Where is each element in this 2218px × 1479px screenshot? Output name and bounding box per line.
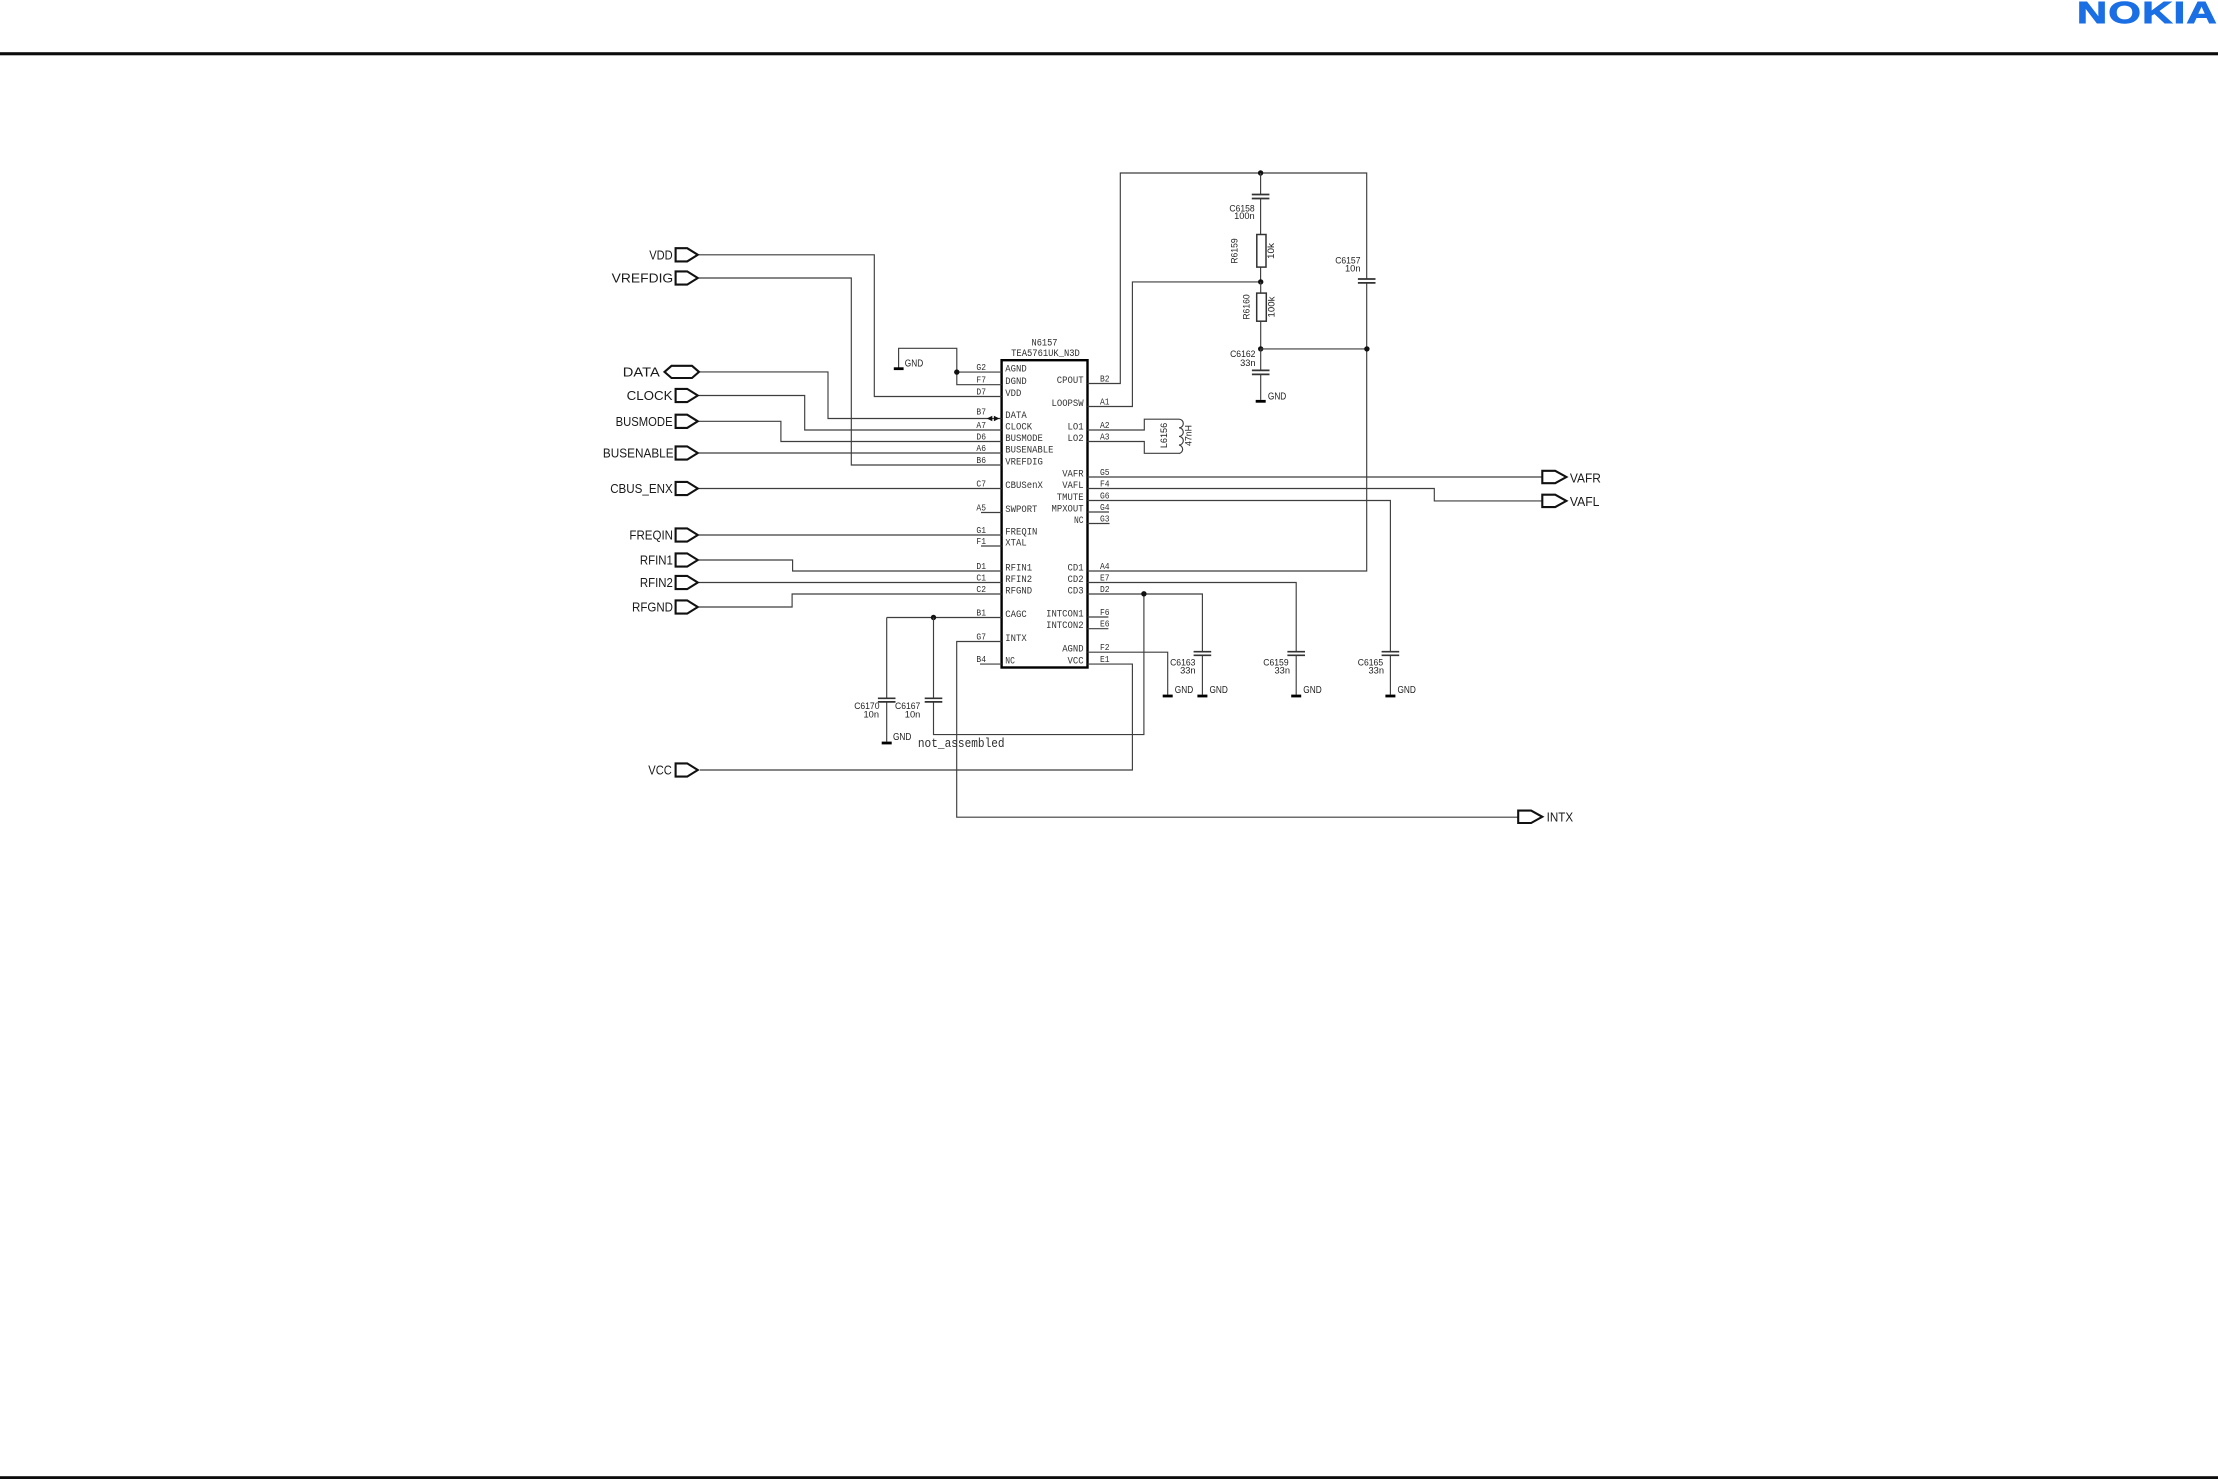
N6157 pin B1 CAGC [976, 608, 1026, 622]
svg-text:CBUSenX: CBUSenX [1005, 480, 1043, 492]
svg-text:DATA: DATA [623, 364, 660, 379]
ground symbol below C6165 [1385, 685, 1416, 696]
node BUSMODE input flag [616, 414, 698, 429]
junction top rail / C6158 [1258, 170, 1263, 175]
wire VAFL F4 net [1088, 489, 1543, 501]
svg-text:RFGND: RFGND [1005, 586, 1032, 598]
resistor R6159 10k [1230, 235, 1278, 268]
wire BUSMODE net [699, 421, 1002, 441]
svg-text:10n: 10n [864, 710, 880, 721]
svg-text:CAGC: CAGC [1005, 609, 1026, 621]
svg-text:MPXOUT: MPXOUT [1052, 504, 1084, 516]
svg-text:INTX: INTX [1005, 633, 1027, 645]
N6157 pin A5 SWPORT [976, 503, 1037, 516]
svg-text:RFIN2: RFIN2 [1005, 574, 1032, 586]
svg-text:RFIN2: RFIN2 [640, 575, 673, 590]
svg-text:G2: G2 [976, 362, 986, 373]
wire BUSENABLE net [699, 452, 1002, 454]
node RFIN2 input flag [640, 575, 698, 590]
N6157 pin G4 MPXOUT [1052, 502, 1110, 515]
svg-text:33n: 33n [1369, 665, 1385, 676]
svg-text:GND: GND [1175, 685, 1193, 696]
wire CD3 D2 net to C6163 [1088, 594, 1203, 652]
junction CD3/C6167 [1141, 591, 1146, 596]
node VAFR output flag [1542, 470, 1601, 485]
N6157 pin A7 CLOCK [976, 420, 1032, 434]
svg-text:VAFR: VAFR [1062, 469, 1084, 481]
wire VCC net [700, 664, 1133, 770]
wire node to C6157 column [1261, 348, 1367, 350]
wire CAGC B1 net [887, 617, 1002, 619]
ground symbol on F2 [1163, 685, 1194, 696]
svg-text:CPOUT: CPOUT [1057, 375, 1084, 387]
svg-text:GND: GND [1210, 685, 1228, 696]
wire TMUTE G6 net to C6165 [1088, 501, 1391, 652]
svg-text:INTCON2: INTCON2 [1046, 620, 1084, 632]
N6157 pin F7 DGND [976, 375, 1026, 389]
svg-text:FREQIN: FREQIN [629, 528, 673, 543]
N6157 pin D6 BUSMODE [976, 432, 1042, 446]
node RFGND input flag [632, 600, 698, 615]
svg-text:GND: GND [1303, 685, 1321, 696]
svg-text:10n: 10n [905, 710, 921, 721]
node VREFDIG input flag [612, 271, 698, 286]
node CBUS_ENX input flag [610, 481, 698, 496]
N6157 pin C1 RFIN2 [976, 573, 1032, 587]
svg-text:BUSENABLE: BUSENABLE [1005, 445, 1053, 457]
N6157 pin G2 AGND [976, 362, 1026, 376]
wire CD2 E7 net to C6159 [1088, 583, 1297, 652]
footer rule [0, 1476, 2218, 1479]
capacitor C6165 33n [1358, 652, 1399, 677]
svg-text:not_assembled: not_assembled [918, 736, 1005, 751]
wire INTX net [957, 642, 1518, 818]
svg-text:F7: F7 [976, 375, 986, 386]
svg-text:CD2: CD2 [1068, 574, 1084, 586]
capacitor C6158 100n [1229, 195, 1269, 223]
wire C6157 lower segment to CD1 [1088, 283, 1367, 571]
svg-text:VCC: VCC [1068, 656, 1084, 668]
N6157 pin G3 NC [1074, 514, 1110, 528]
N6157 pin B6 VREFDIG [976, 455, 1042, 469]
N6157 pin D2 CD3 [1068, 584, 1110, 598]
ground symbol below C6170 [882, 732, 912, 743]
svg-text:CD1: CD1 [1068, 563, 1084, 575]
svg-text:100k: 100k [1267, 296, 1278, 317]
wire RFGND net [699, 594, 1002, 607]
svg-text:VAFL: VAFL [1570, 494, 1600, 509]
svg-text:RFIN1: RFIN1 [640, 553, 673, 568]
resistor R6160 100k [1242, 293, 1278, 321]
svg-text:SWPORT: SWPORT [1005, 504, 1037, 516]
ground symbol below C6162 [1256, 392, 1287, 403]
wire FREQIN net [699, 534, 1002, 536]
N6157 pin G5 VAFR [1062, 467, 1110, 481]
N6157 pin F2 AGND [1062, 642, 1110, 656]
svg-text:BUSENABLE: BUSENABLE [603, 446, 674, 461]
svg-text:BUSMODE: BUSMODE [616, 414, 673, 429]
svg-text:NC: NC [1005, 656, 1015, 668]
svg-text:AGND: AGND [1062, 644, 1083, 656]
N6157 pin E1 VCC [1068, 654, 1110, 668]
svg-text:VAFL: VAFL [1062, 480, 1083, 492]
junction GND/AGND [954, 369, 959, 374]
svg-text:VDD: VDD [1005, 388, 1021, 400]
N6157 pin F4 VAFL [1062, 479, 1110, 493]
node RFIN1 input flag [640, 553, 698, 568]
svg-text:VAFR: VAFR [1570, 470, 1601, 485]
N6157 pin B2 CPOUT [1057, 374, 1110, 388]
wire RFIN1 net [699, 560, 1002, 571]
wire C6170 branch [886, 618, 888, 742]
node BUSENABLE input flag [603, 446, 698, 461]
svg-text:TMUTE: TMUTE [1057, 492, 1084, 504]
wire RFIN2 net [699, 582, 1002, 584]
N6157 pin D1 RFIN1 [976, 561, 1032, 575]
capacitor C6167 10n [895, 698, 942, 720]
capacitor C6157 10n [1335, 255, 1375, 283]
wire R6160 column [1260, 282, 1262, 349]
svg-text:NC: NC [1074, 515, 1084, 527]
svg-text:33n: 33n [1180, 665, 1196, 676]
svg-text:33n: 33n [1275, 665, 1291, 676]
svg-text:VREFDIG: VREFDIG [1005, 457, 1043, 469]
svg-text:CBUS_ENX: CBUS_ENX [610, 481, 673, 496]
svg-text:CLOCK: CLOCK [627, 388, 673, 403]
svg-text:47nH: 47nH [1183, 425, 1194, 446]
wire CPOUT B2 net to top rail [1088, 173, 1367, 384]
N6157 pin F1 XTAL [976, 536, 1026, 550]
svg-text:INTX: INTX [1547, 810, 1574, 825]
wire DATA net [699, 372, 1002, 419]
svg-text:GND: GND [893, 732, 911, 743]
node VAFL output flag [1542, 494, 1599, 509]
svg-text:CLOCK: CLOCK [1005, 422, 1032, 434]
svg-text:VREFDIG: VREFDIG [612, 271, 674, 286]
wire AGND G2 branch [957, 371, 1002, 373]
wire AGND F2 stub to ground [1088, 652, 1168, 694]
svg-text:DATA: DATA [1005, 410, 1027, 422]
node DATA bidirectional flag [623, 364, 699, 379]
node VCC input flag [648, 763, 697, 778]
svg-text:CD3: CD3 [1068, 586, 1084, 598]
capacitor C6159 33n [1263, 652, 1305, 677]
wire C6162 column [1260, 349, 1262, 400]
svg-text:E6: E6 [1100, 619, 1110, 630]
svg-text:100n: 100n [1234, 211, 1255, 222]
wire VREFDIG net [699, 278, 1002, 465]
capacitor C6162 33n [1230, 349, 1269, 374]
svg-text:XTAL: XTAL [1005, 538, 1026, 550]
junction R6160/C6162 node [1258, 346, 1263, 351]
wire C6167 branch to CD3 [934, 594, 1144, 735]
node FREQIN input flag [629, 528, 697, 543]
wire LOOPSW A1 net [1088, 282, 1261, 407]
N6157 pin G1 FREQIN [976, 525, 1037, 539]
N6157 pin A3 LO2 [1068, 432, 1110, 446]
N6157 pin G6 TMUTE [1057, 491, 1110, 505]
inductor L6156 47nH [1159, 419, 1194, 453]
svg-text:LO2: LO2 [1068, 433, 1084, 445]
svg-text:BUSMODE: BUSMODE [1005, 433, 1043, 445]
svg-text:B7: B7 [976, 407, 986, 418]
wire C6159 lower [1295, 655, 1297, 694]
node INTX output flag [1518, 810, 1573, 825]
junction on C6157 column [1364, 346, 1369, 351]
ground symbol below C6159 [1291, 685, 1322, 696]
wire C6163 lower [1201, 655, 1203, 694]
N6157 pin D7 VDD [976, 387, 1021, 401]
IC N6157 TEA5761UK_N3D body [1002, 338, 1088, 667]
N6157 pin A2 LO1 [1068, 420, 1110, 434]
svg-text:VCC: VCC [648, 763, 672, 778]
N6157 pin A4 CD1 [1068, 561, 1110, 575]
svg-text:10n: 10n [1345, 263, 1361, 274]
node VDD input flag [649, 247, 698, 262]
N6157 pin F6 INTCON1 [1046, 607, 1110, 621]
svg-text:INTCON1: INTCON1 [1046, 609, 1084, 621]
N6157 pin G7 INTX [976, 632, 1027, 646]
wire C6158-R6159 column [1260, 173, 1262, 282]
svg-text:TEA5761UK_N3D: TEA5761UK_N3D [1011, 349, 1080, 360]
svg-text:LO1: LO1 [1068, 422, 1084, 434]
node CLOCK input flag [627, 388, 698, 403]
N6157 pin E7 CD2 [1068, 573, 1110, 587]
wire GND net at IC (AGND/DGND) [899, 348, 1002, 384]
svg-text:RFIN1: RFIN1 [1005, 563, 1032, 575]
N6157 pin B7 DATA [976, 407, 1027, 423]
svg-text:GND: GND [905, 359, 923, 370]
N6157 pin B4 NC [976, 654, 1014, 668]
capacitor C6163 33n [1170, 652, 1211, 677]
DATA bidirectional arrow [987, 416, 1000, 422]
capacitor C6170 10n [854, 698, 895, 720]
N6157 pin C2 RFGND [976, 584, 1032, 598]
svg-text:33n: 33n [1240, 358, 1256, 369]
svg-text:F2: F2 [1100, 642, 1110, 653]
N6157 pin A6 BUSENABLE [976, 443, 1053, 457]
N6157 pin C7 CBUSenX [976, 479, 1043, 493]
svg-text:AGND: AGND [1005, 364, 1026, 376]
svg-text:10k: 10k [1266, 243, 1277, 259]
svg-text:R6159: R6159 [1230, 238, 1241, 263]
svg-text:N6157: N6157 [1032, 338, 1058, 349]
svg-text:NOKIA: NOKIA [2077, 0, 2218, 30]
wire LO2 A3 net [1088, 442, 1180, 454]
svg-text:GND: GND [1398, 685, 1416, 696]
N6157 pin E6 INTCON2 [1046, 619, 1110, 633]
svg-text:GND: GND [1268, 392, 1286, 403]
svg-text:LOOPSW: LOOPSW [1052, 398, 1085, 410]
svg-text:DGND: DGND [1005, 376, 1026, 388]
N6157 pin A1 LOOPSW [1052, 397, 1110, 411]
wire CBUS_ENX net [699, 488, 1002, 490]
svg-text:R6160: R6160 [1242, 294, 1253, 319]
junction R6159/R6160 node [1258, 279, 1263, 284]
wire C6165 lower [1389, 655, 1391, 694]
ground symbol near IC [894, 359, 923, 370]
wire CLOCK net [699, 396, 1002, 431]
wire VDD net [699, 255, 1002, 397]
svg-text:L6156: L6156 [1159, 423, 1170, 448]
svg-text:VDD: VDD [649, 247, 672, 262]
ground symbol below C6163 [1197, 685, 1228, 696]
wire LO1 A2 net [1088, 419, 1180, 430]
svg-text:RFGND: RFGND [632, 600, 673, 615]
header rule [0, 52, 2218, 55]
junction CAGC/C6167 [931, 615, 936, 620]
wire VAFR G5 net [1088, 476, 1543, 478]
